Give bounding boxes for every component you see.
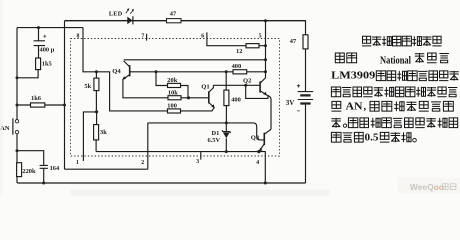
node 5k/3k chain dot <box>95 110 98 113</box>
wire Q1 collector to Q2 base <box>213 84 260 86</box>
wire pin 2 column and 124-row <box>65 123 148 169</box>
svg-text:400: 400 <box>231 96 241 103</box>
resistor R 47 (top, series with LED) <box>167 11 182 23</box>
svg-text:Q1: Q1 <box>201 84 209 91</box>
svg-text:5k: 5k <box>84 83 91 90</box>
svg-text:National: National <box>380 55 411 66</box>
wire top positive rail <box>65 20 306 22</box>
wire long left vertical (rail to pin 2 wire) <box>64 21 66 170</box>
resistor R 220k <box>17 163 36 177</box>
node 20k riser dot <box>155 70 158 73</box>
svg-text:12: 12 <box>236 48 242 55</box>
svg-text:0.5: 0.5 <box>365 132 379 143</box>
svg-text:47: 47 <box>290 38 297 45</box>
resistor R 1k6 <box>17 95 65 107</box>
battery BT 3V <box>286 84 313 111</box>
zener diode D1 6.5V <box>208 123 231 152</box>
svg-text:8: 8 <box>77 34 80 40</box>
node 400v/D1 dot <box>225 121 228 124</box>
wire Q4 base row (to 400h and pin5 column) <box>130 71 266 73</box>
wire Q2 base-emitter loop <box>246 85 268 98</box>
svg-text:WeeQoo: WeeQoo <box>410 182 444 192</box>
resistor R 400 (vertical) <box>224 72 241 122</box>
wire left column <box>16 28 18 183</box>
node pin8/5k dot <box>95 70 98 73</box>
svg-text:1: 1 <box>76 160 79 166</box>
watermark WeeQoo <box>398 178 460 194</box>
wire button node to capacitor 164 <box>17 151 44 166</box>
wire 123-row (pin2 to Q3 base) <box>148 123 264 140</box>
svg-text:20k: 20k <box>167 77 177 84</box>
svg-text:Q2: Q2 <box>243 77 252 84</box>
resistor R 400 (horizontal) <box>232 63 247 74</box>
svg-text:LED: LED <box>109 11 123 17</box>
pin 3 stub <box>200 152 202 160</box>
resistor R 5k <box>84 72 99 110</box>
svg-text:100: 100 <box>167 103 177 110</box>
node button bottom dot <box>16 149 19 152</box>
node Q1 base dot <box>187 96 190 99</box>
node 1k5 bottom dot <box>16 76 19 79</box>
svg-text:4: 4 <box>256 160 259 166</box>
transistor Q1 <box>189 84 215 109</box>
node rail / pin5 dot <box>264 19 267 22</box>
node 400v riser dot <box>225 70 228 73</box>
wire Q2 emitter to Q3 collector <box>270 98 272 129</box>
node 400u tap dot <box>37 26 40 29</box>
transistor Q3 <box>251 129 271 151</box>
pushbutton AN <box>0 118 19 134</box>
svg-text:7: 7 <box>142 34 145 40</box>
node 400h/pin5 dot <box>264 70 267 73</box>
svg-text:6.5V: 6.5V <box>208 137 221 144</box>
node Q2 base loop dot <box>244 84 247 87</box>
node 1k6 left dot <box>16 104 19 107</box>
svg-text:220k: 220k <box>22 168 36 175</box>
svg-text:LM3909: LM3909 <box>331 70 376 82</box>
svg-text:AN: AN <box>346 101 363 112</box>
node D1 bottom dot <box>225 150 228 153</box>
svg-text:3V: 3V <box>286 99 295 107</box>
svg-text:1k5: 1k5 <box>42 60 52 67</box>
node capacitor bottom dot <box>42 182 45 185</box>
node 12/pin5 dot <box>264 44 267 47</box>
svg-text:6: 6 <box>201 34 204 40</box>
wire pin 5 column <box>265 21 267 78</box>
description text block (Chinese) <box>331 36 459 143</box>
resistor R 10k <box>168 89 189 99</box>
wire pin 8 to internal node <box>83 28 96 72</box>
svg-text:5: 5 <box>259 34 262 40</box>
svg-text:2: 2 <box>141 160 144 166</box>
svg-text:10k: 10k <box>168 89 178 96</box>
transistor Q4 <box>112 61 129 80</box>
transistor Q2 <box>243 77 271 99</box>
resistor R 1k5 <box>36 58 52 70</box>
pin 7 stub <box>146 34 148 41</box>
svg-text:D1: D1 <box>212 130 220 137</box>
wire Q4 emitter to 10k row <box>123 79 168 98</box>
wire 1k5 bottom to left column <box>17 70 38 78</box>
wire internal top (Q4 collector to pin5 column) <box>124 59 266 61</box>
wire top-left branch (node to pin 8) <box>17 27 83 29</box>
svg-text:400: 400 <box>232 63 242 70</box>
wire emitter row (3k bottom to Q3 emitter, pin 4) <box>96 152 265 183</box>
resistor R 12 with pin 6 stub <box>207 32 266 55</box>
wire bottom ground rail <box>17 182 305 184</box>
svg-text:164: 164 <box>50 165 60 172</box>
svg-text:Q3: Q3 <box>251 135 260 142</box>
resistor R 3k <box>94 112 108 152</box>
wire right side (battery branch) <box>305 20 307 183</box>
svg-text:Q4: Q4 <box>112 68 121 75</box>
svg-text:47: 47 <box>170 11 177 18</box>
svg-text:,: , <box>364 101 367 112</box>
op-amp U1 LM3909 dashed outline <box>71 39 280 157</box>
wire 100 row (pin8 node to 100) <box>96 72 167 111</box>
capacitor C1 400u (electrolytic) <box>34 28 55 58</box>
svg-text:400 µ: 400 µ <box>40 47 55 54</box>
node 1k6 right dot on long vertical <box>63 104 66 107</box>
wire pin 1 riser <box>83 112 96 161</box>
resistor R 100 <box>167 103 214 113</box>
resistor R 20k <box>156 72 188 98</box>
node Q3 emitter dot <box>257 150 260 153</box>
LED with 47 ohm <box>109 8 134 24</box>
svg-text:1k6: 1k6 <box>31 95 42 102</box>
resistor R 47 (right vertical) <box>290 35 308 49</box>
svg-text:3: 3 <box>196 159 199 165</box>
node internal-top/pin5 dot <box>264 58 267 61</box>
svg-text:3k: 3k <box>100 129 107 136</box>
capacitor C2 164 <box>40 165 60 183</box>
node pin4 ground dot <box>264 182 267 185</box>
